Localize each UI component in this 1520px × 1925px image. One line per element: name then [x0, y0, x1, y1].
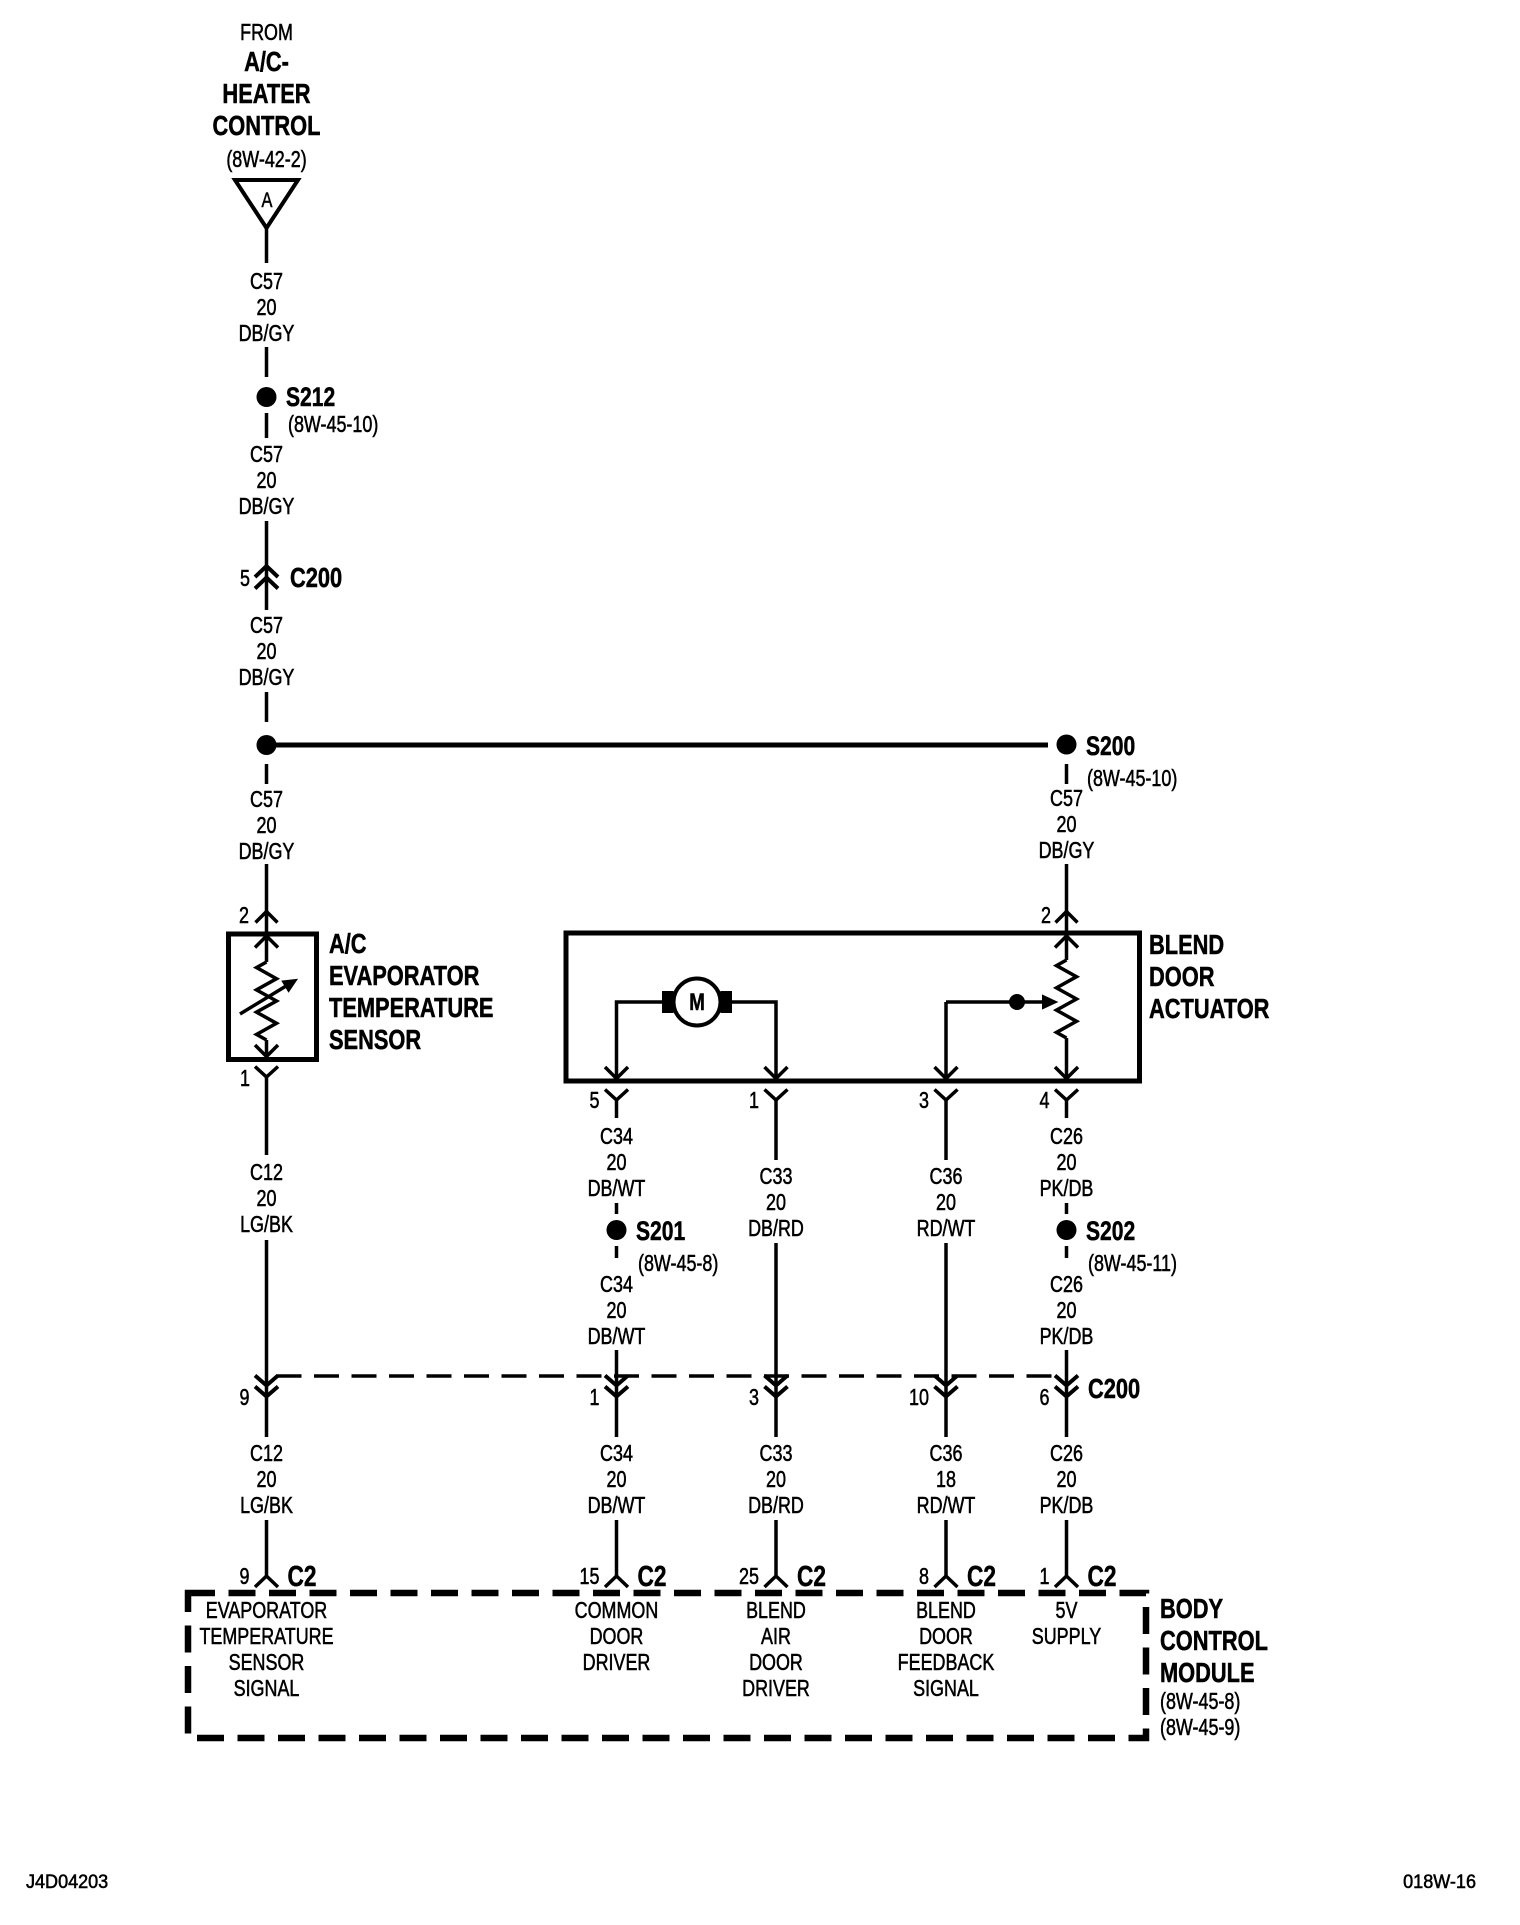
svg-text:BLEND: BLEND — [1149, 929, 1224, 960]
svg-text:S200: S200 — [1086, 732, 1135, 762]
svg-text:(8W-45-10): (8W-45-10) — [1087, 766, 1177, 792]
svg-text:SUPPLY: SUPPLY — [1032, 1624, 1102, 1650]
svg-text:C33: C33 — [760, 1441, 793, 1467]
svg-text:5: 5 — [240, 566, 250, 592]
svg-text:SIGNAL: SIGNAL — [913, 1676, 979, 1702]
svg-text:DB/WT: DB/WT — [588, 1493, 646, 1519]
svg-text:BLEND: BLEND — [746, 1598, 806, 1624]
svg-text:C57: C57 — [1050, 786, 1083, 812]
svg-text:MODULE: MODULE — [1160, 1657, 1255, 1688]
svg-text:RD/WT: RD/WT — [917, 1216, 976, 1242]
svg-text:20: 20 — [1057, 1298, 1077, 1324]
svg-text:LG/BK: LG/BK — [240, 1212, 293, 1238]
svg-text:C57: C57 — [250, 269, 283, 295]
svg-text:2: 2 — [1041, 903, 1051, 929]
svg-text:20: 20 — [257, 813, 277, 839]
svg-text:C26: C26 — [1050, 1441, 1083, 1467]
svg-text:RD/WT: RD/WT — [917, 1493, 976, 1519]
svg-text:20: 20 — [1057, 1467, 1077, 1493]
svg-text:AIR: AIR — [761, 1624, 791, 1650]
svg-text:20: 20 — [257, 1186, 277, 1212]
svg-text:DB/GY: DB/GY — [239, 839, 295, 865]
svg-text:TEMPERATURE: TEMPERATURE — [329, 992, 494, 1023]
svg-text:1: 1 — [1040, 1564, 1050, 1590]
svg-text:SIGNAL: SIGNAL — [234, 1676, 300, 1702]
svg-text:DB/GY: DB/GY — [239, 494, 295, 520]
svg-text:EVAPORATOR: EVAPORATOR — [329, 960, 479, 991]
svg-text:DOOR: DOOR — [919, 1624, 973, 1650]
svg-text:20: 20 — [766, 1190, 786, 1216]
svg-text:C34: C34 — [600, 1441, 633, 1467]
svg-text:25: 25 — [739, 1564, 759, 1590]
svg-text:FROM: FROM — [240, 20, 293, 46]
svg-text:A: A — [262, 188, 273, 211]
svg-text:2: 2 — [239, 903, 249, 929]
svg-text:18: 18 — [936, 1467, 956, 1493]
svg-text:C200: C200 — [1088, 1373, 1140, 1404]
svg-text:EVAPORATOR: EVAPORATOR — [206, 1598, 328, 1624]
svg-text:(8W-45-8): (8W-45-8) — [1160, 1689, 1240, 1715]
svg-text:DOOR: DOOR — [1149, 961, 1214, 992]
svg-text:3: 3 — [749, 1385, 759, 1411]
svg-text:6: 6 — [1040, 1385, 1050, 1411]
svg-text:DB/GY: DB/GY — [1039, 838, 1095, 864]
svg-text:1: 1 — [240, 1066, 250, 1092]
svg-text:CONTROL: CONTROL — [1160, 1625, 1268, 1656]
svg-text:(8W-42-2): (8W-42-2) — [226, 147, 306, 173]
svg-text:C2: C2 — [638, 1559, 667, 1592]
svg-text:20: 20 — [607, 1298, 627, 1324]
svg-text:A/C: A/C — [329, 928, 367, 959]
svg-text:DB/WT: DB/WT — [588, 1324, 646, 1350]
svg-text:3: 3 — [919, 1088, 929, 1114]
svg-text:SENSOR: SENSOR — [329, 1024, 421, 1055]
svg-text:C2: C2 — [797, 1559, 826, 1592]
svg-text:20: 20 — [766, 1467, 786, 1493]
svg-text:M: M — [689, 989, 705, 1016]
svg-text:C57: C57 — [250, 787, 283, 813]
svg-text:C57: C57 — [250, 442, 283, 468]
svg-text:TEMPERATURE: TEMPERATURE — [199, 1624, 333, 1650]
svg-text:20: 20 — [607, 1467, 627, 1493]
svg-text:C33: C33 — [760, 1164, 793, 1190]
svg-text:5V: 5V — [1056, 1598, 1078, 1624]
svg-text:FEEDBACK: FEEDBACK — [898, 1650, 995, 1676]
svg-text:DRIVER: DRIVER — [742, 1676, 810, 1702]
svg-text:J4D04203: J4D04203 — [26, 1871, 108, 1893]
svg-text:20: 20 — [1057, 1150, 1077, 1176]
svg-text:LG/BK: LG/BK — [240, 1493, 293, 1519]
svg-text:C2: C2 — [967, 1559, 996, 1592]
svg-text:20: 20 — [257, 468, 277, 494]
svg-text:5: 5 — [590, 1088, 600, 1114]
svg-text:9: 9 — [240, 1564, 250, 1590]
svg-text:DB/GY: DB/GY — [239, 321, 295, 347]
svg-text:CONTROL: CONTROL — [213, 110, 321, 141]
svg-text:20: 20 — [257, 1467, 277, 1493]
svg-text:20: 20 — [257, 295, 277, 321]
svg-text:COMMON: COMMON — [575, 1598, 659, 1624]
svg-text:HEATER: HEATER — [222, 78, 310, 109]
svg-text:(8W-45-9): (8W-45-9) — [1160, 1715, 1240, 1741]
svg-text:4: 4 — [1040, 1088, 1050, 1114]
svg-text:20: 20 — [1057, 812, 1077, 838]
svg-text:C36: C36 — [930, 1441, 963, 1467]
svg-text:20: 20 — [607, 1150, 627, 1176]
svg-text:PK/DB: PK/DB — [1040, 1324, 1094, 1350]
svg-text:(8W-45-8): (8W-45-8) — [638, 1251, 718, 1277]
svg-text:1: 1 — [590, 1385, 600, 1411]
svg-text:C2: C2 — [1087, 1559, 1116, 1592]
svg-text:DRIVER: DRIVER — [583, 1650, 651, 1676]
svg-text:(8W-45-11): (8W-45-11) — [1088, 1251, 1177, 1277]
svg-text:8: 8 — [919, 1564, 929, 1590]
svg-text:C34: C34 — [600, 1272, 633, 1298]
svg-text:C26: C26 — [1050, 1272, 1083, 1298]
svg-text:BLEND: BLEND — [916, 1598, 976, 1624]
svg-text:S202: S202 — [1086, 1217, 1135, 1247]
svg-text:20: 20 — [257, 639, 277, 665]
svg-text:A/C-: A/C- — [244, 46, 289, 77]
svg-text:C200: C200 — [290, 562, 342, 593]
svg-text:S201: S201 — [636, 1217, 685, 1247]
svg-text:C57: C57 — [250, 613, 283, 639]
svg-text:DB/RD: DB/RD — [748, 1493, 804, 1519]
svg-text:S212: S212 — [286, 383, 335, 413]
svg-text:PK/DB: PK/DB — [1040, 1493, 1094, 1519]
svg-text:BODY: BODY — [1160, 1593, 1223, 1624]
svg-text:ACTUATOR: ACTUATOR — [1149, 993, 1269, 1024]
svg-text:DB/RD: DB/RD — [748, 1216, 804, 1242]
svg-text:C26: C26 — [1050, 1124, 1083, 1150]
svg-text:DB/WT: DB/WT — [588, 1176, 646, 1202]
svg-text:C34: C34 — [600, 1124, 633, 1150]
svg-text:C2: C2 — [288, 1559, 317, 1592]
svg-text:SENSOR: SENSOR — [229, 1650, 305, 1676]
svg-text:018W-16: 018W-16 — [1403, 1871, 1476, 1893]
svg-text:C12: C12 — [250, 1160, 283, 1186]
svg-text:PK/DB: PK/DB — [1040, 1176, 1094, 1202]
svg-text:(8W-45-10): (8W-45-10) — [288, 412, 378, 438]
svg-text:C12: C12 — [250, 1441, 283, 1467]
svg-text:DOOR: DOOR — [590, 1624, 644, 1650]
svg-text:DB/GY: DB/GY — [239, 665, 295, 691]
svg-text:20: 20 — [936, 1190, 956, 1216]
svg-text:10: 10 — [909, 1385, 929, 1411]
svg-text:DOOR: DOOR — [749, 1650, 803, 1676]
svg-text:15: 15 — [580, 1564, 600, 1590]
svg-text:1: 1 — [749, 1088, 759, 1114]
svg-text:9: 9 — [240, 1385, 250, 1411]
svg-text:C36: C36 — [930, 1164, 963, 1190]
